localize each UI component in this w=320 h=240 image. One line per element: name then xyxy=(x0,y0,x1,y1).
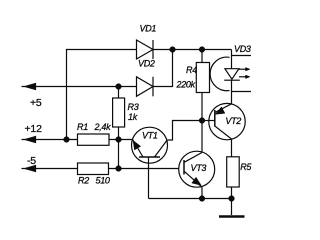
wire node B to VT3 base xyxy=(109,168,185,170)
diode VD2 xyxy=(137,77,154,97)
svg-text:VT2: VT2 xyxy=(225,116,241,126)
LED VD3 cathode bar xyxy=(224,79,240,81)
R5 bottom lead xyxy=(231,187,233,199)
terminal arrow -5 xyxy=(24,165,36,172)
resistor R4 lead bottom xyxy=(201,93,203,121)
wire +12 riser to VD1 anode xyxy=(67,50,137,140)
svg-text:1k: 1k xyxy=(128,112,138,122)
VT2 emitter xyxy=(215,104,232,113)
svg-text:VT3: VT3 xyxy=(191,163,207,173)
resistor R3 xyxy=(113,98,125,127)
transistor VT3 circle xyxy=(179,151,215,187)
resistor R1 xyxy=(78,134,110,145)
junction R4 top xyxy=(199,47,205,53)
junction node A xyxy=(116,137,122,143)
VT1 emitter arrow xyxy=(133,140,141,150)
junction node B xyxy=(116,166,122,172)
junction R3 top xyxy=(116,84,122,90)
svg-text:-5: -5 xyxy=(27,155,36,167)
node vertical R3 top lead xyxy=(118,87,120,99)
transistor VT2 circle xyxy=(209,103,245,139)
svg-text:VT1: VT1 xyxy=(142,131,158,141)
VT1 emitter xyxy=(133,140,143,158)
VT1 base bar xyxy=(139,156,160,158)
svg-text:R2 510: R2 510 xyxy=(78,176,110,186)
VT3 emitter lead down xyxy=(201,187,203,198)
wire VD2 cathode join xyxy=(153,50,173,87)
VT2 emitter arrow (PNP) xyxy=(215,107,225,114)
ground rail xyxy=(149,198,235,200)
resistor R4 lead top xyxy=(201,50,203,63)
wire VD1 cathode line to VD3 xyxy=(153,49,232,51)
junction R5 rail xyxy=(229,196,235,202)
VD3 top right lead xyxy=(232,55,252,57)
VT3 base bar xyxy=(183,160,185,175)
VT2 collector xyxy=(215,126,232,139)
junction +12 riser xyxy=(64,137,70,143)
VD3 light arrow 2 xyxy=(239,76,247,78)
VT2 collector lead to R5 xyxy=(231,139,233,157)
diode VD1 xyxy=(137,40,154,59)
resistor R4 xyxy=(196,63,209,93)
VT3 emitter arrow (NPN) xyxy=(192,177,201,185)
ground stem xyxy=(231,199,233,216)
junction VD2 join xyxy=(170,47,176,53)
terminal arrow +5 xyxy=(24,83,36,90)
LED VD3 envelope arc xyxy=(210,57,229,91)
VT1 collector wire to main node xyxy=(167,121,202,141)
junction main node xyxy=(199,118,205,124)
resistor R5 xyxy=(227,157,240,187)
VT1 base lead down xyxy=(148,157,150,199)
VD3 bottom right lead xyxy=(232,91,252,93)
transistor VT1 circle xyxy=(132,127,168,163)
wire -5 input line xyxy=(22,168,78,170)
VD3 light arrow 1 xyxy=(239,68,247,70)
VT3 emitter xyxy=(184,171,202,187)
svg-text:R4: R4 xyxy=(186,65,197,75)
wire +12 input line xyxy=(22,139,78,141)
svg-text:VD1: VD1 xyxy=(140,24,157,34)
ground bar xyxy=(219,215,245,218)
node vertical R3 bottom to node B xyxy=(118,127,120,169)
LED VD3 triangle xyxy=(225,69,239,80)
VT2 base lead xyxy=(202,120,215,122)
svg-text:+12: +12 xyxy=(25,123,43,135)
svg-text:220k: 220k xyxy=(176,80,196,90)
VT3 collector xyxy=(184,153,201,163)
terminal arrow +12 xyxy=(24,136,36,143)
svg-text:R1 2,4k: R1 2,4k xyxy=(77,122,111,132)
junction VT3 emitter rail xyxy=(199,196,205,202)
VT2 base bar xyxy=(214,110,216,127)
svg-text:VD2: VD2 xyxy=(138,59,155,69)
svg-text:R3: R3 xyxy=(128,102,139,112)
LED VD3 anode lead xyxy=(231,50,233,69)
resistor R2 xyxy=(78,163,109,175)
svg-text:+5: +5 xyxy=(30,97,42,109)
wire R1 to node A to VT1 emitter xyxy=(109,139,133,141)
VT1 collector xyxy=(155,140,168,157)
wire +5 input line xyxy=(22,86,137,88)
LED VD3 cathode lead down xyxy=(231,80,233,104)
svg-text:R5: R5 xyxy=(240,162,252,172)
svg-text:VD3: VD3 xyxy=(234,44,251,54)
VT3 collector lead up xyxy=(201,121,203,153)
